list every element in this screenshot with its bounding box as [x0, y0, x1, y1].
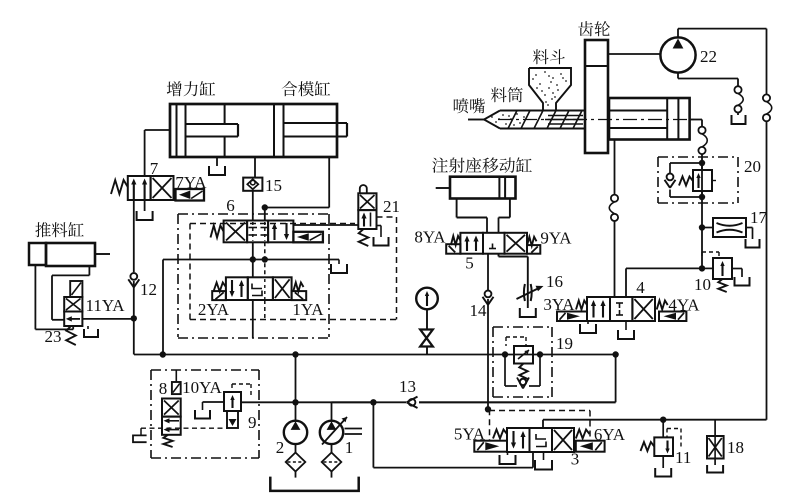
svg-text:20: 20: [744, 157, 761, 176]
svg-text:17: 17: [750, 208, 768, 227]
svg-text:15: 15: [265, 176, 282, 195]
svg-text:9YA: 9YA: [540, 229, 572, 248]
svg-text:3: 3: [571, 450, 580, 469]
svg-text:3YA: 3YA: [543, 295, 575, 314]
svg-text:6YA: 6YA: [594, 425, 626, 444]
svg-text:1YA: 1YA: [292, 300, 324, 319]
svg-text:8YA: 8YA: [414, 228, 446, 247]
svg-text:19: 19: [556, 334, 573, 353]
svg-text:4YA: 4YA: [668, 296, 700, 315]
svg-text:6: 6: [226, 196, 235, 215]
svg-text:1: 1: [345, 438, 354, 457]
svg-text:2: 2: [276, 438, 285, 457]
svg-text:11: 11: [675, 448, 691, 467]
svg-text:14: 14: [470, 301, 488, 320]
svg-text:18: 18: [727, 438, 744, 457]
svg-text:8: 8: [159, 379, 168, 398]
svg-text:10: 10: [694, 275, 711, 294]
svg-text:10YA: 10YA: [182, 378, 222, 397]
svg-text:23: 23: [45, 327, 62, 346]
svg-text:13: 13: [399, 377, 416, 396]
svg-text:2YA: 2YA: [198, 300, 230, 319]
svg-text:4: 4: [636, 278, 645, 297]
svg-text:9: 9: [248, 413, 257, 432]
svg-text:7: 7: [150, 159, 159, 178]
svg-text:5YA: 5YA: [454, 425, 486, 444]
svg-text:5: 5: [465, 254, 474, 273]
svg-text:11YA: 11YA: [85, 296, 125, 315]
svg-text:22: 22: [700, 47, 717, 66]
svg-text:7YA: 7YA: [175, 173, 207, 192]
svg-text:21: 21: [383, 197, 400, 216]
svg-text:12: 12: [140, 280, 157, 299]
svg-text:16: 16: [546, 272, 563, 291]
